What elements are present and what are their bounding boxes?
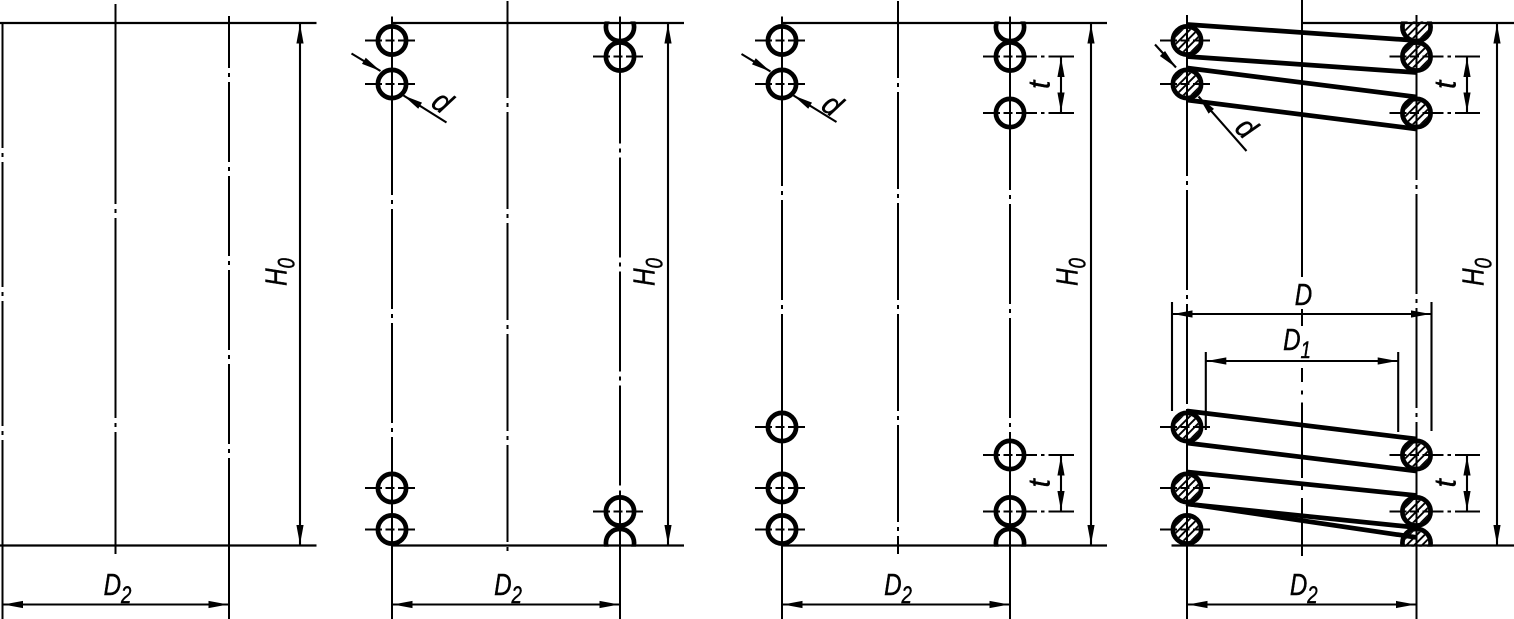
panel2 tick bottom-left coil1 — [365, 487, 415, 489]
panel2 tick top-left coil1 — [365, 40, 415, 42]
dimension D arrow left — [1173, 310, 1193, 317]
dimension H0 panel2 line — [667, 23, 669, 546]
dimension H0 panel4 arrow down — [1493, 525, 1500, 545]
dimension D1 arrow right — [1378, 357, 1398, 364]
wire diameter d leader panel2 lower segment — [404, 96, 447, 123]
panel4 tick bottom-right coil2 extended — [1390, 511, 1481, 513]
dimension D2 panel1 arrow right — [209, 601, 229, 608]
dimension D2 panel3 arrow left — [783, 601, 803, 608]
panel4 spring axis centerline dot a — [1301, 391, 1303, 395]
panel4 spring axis centerline segment a — [1301, 0, 1303, 277]
hatched wire section, panel4 top-right end coil (clipped) — [1396, 6, 1438, 48]
pitch t dimension panel3 bottom line — [1060, 455, 1062, 512]
panel4 tick top-right coil2 extended — [1390, 112, 1481, 114]
panel2 left coil centerline top solid — [391, 17, 393, 104]
wire diameter d leader panel3 upper arrow — [752, 58, 772, 74]
spring wire section, panel2 bottom-left coil 1 — [378, 474, 406, 502]
dimension D2 panel4 line — [1187, 603, 1417, 605]
dimension H0 panel4 line — [1496, 23, 1498, 546]
ground-flat clip below bottom face — [0, 547, 1514, 619]
dimension H0 panel4 arrow up — [1493, 24, 1500, 44]
panel3 tick bottom-right coil1 extended — [983, 454, 1074, 456]
dimension D2 panel4 arrow left — [1188, 601, 1208, 608]
panel4 left coil centerline middle — [1186, 101, 1188, 410]
panel4 tick bottom-left coil3 — [1160, 529, 1210, 531]
pitch t panel4 top arrow up — [1463, 58, 1470, 78]
panel4 tick top-left coil1 — [1160, 40, 1210, 42]
wire diameter d leader panel3 upper segment — [742, 54, 771, 72]
panel4 spring axis centerline segment d — [1301, 403, 1303, 479]
spring wire section, panel3 top-left coil 1 — [768, 26, 796, 54]
dimension D arrow right — [1411, 310, 1431, 317]
wire diameter d leader panel2 upper segment — [352, 54, 381, 72]
dimension D2 panel3 line — [782, 603, 1010, 605]
wire coil bottom turn 2 upper edge — [1187, 472, 1417, 496]
panel4 left coil centerline top solid — [1186, 15, 1188, 101]
spring wire section, panel3 bottom-right end coil (clipped) — [996, 529, 1024, 557]
panel1 bottom end face line — [0, 544, 317, 546]
spring wire section, panel2 top-left coil 2 — [378, 70, 406, 98]
dimension H0 panel2 arrow down — [664, 525, 671, 545]
hatched wire section, panel4 bottom-right end coil (clipped, behind wires) — [1396, 522, 1438, 564]
panel1 left coil centerline dashed part — [2, 23, 4, 490]
wire diameter d leader panel3 lower arrow — [792, 92, 812, 108]
mean diameter D extension line left — [1171, 302, 1173, 411]
mean diameter D extension line right — [1430, 302, 1432, 431]
panel2 top end face line — [392, 22, 685, 24]
panel1 right coil centerline solid part — [228, 470, 230, 619]
wire coil bottom turn 2 lower edge — [1187, 504, 1417, 528]
inner diameter D1 extension line right — [1397, 352, 1399, 432]
dimension D2 panel1 arrow left — [4, 601, 24, 608]
panel3 tick top-left coil1 — [755, 40, 805, 42]
spring wire section, panel3 bottom-left coil 3 — [768, 515, 796, 543]
panel3 spring axis centerline — [897, 1, 899, 554]
pitch t panel4 top arrow down — [1463, 93, 1470, 113]
wire coil top turn 1 (left section to right section) — [1187, 25, 1417, 41]
panel4 bottom end face line — [1172, 544, 1514, 546]
dimension H0 panel3 arrow down — [1087, 525, 1094, 545]
panel3 right coil centerline top solid — [1009, 17, 1011, 131]
spring wire section, panel2 bottom-right end coil (clipped) — [606, 529, 634, 557]
dimension H0 panel1 arrow down — [296, 525, 303, 545]
panel3 bottom end face line — [782, 544, 1108, 546]
spring wire section, panel3 bottom-left coil 1 — [768, 413, 796, 441]
panel3 tick bottom-left coil3 — [755, 529, 805, 531]
panel4 spring axis centerline segment c — [1301, 368, 1303, 382]
panel4 tick top-left coil2 — [1160, 83, 1210, 85]
panel3 tick bottom-left coil2 — [755, 487, 805, 489]
hatched wire section, panel4 bottom-left coil 1 — [1166, 406, 1208, 448]
dimension H0 panel2 arrow up — [664, 24, 671, 44]
dimension D line — [1172, 313, 1432, 315]
pitch t dimension panel3 top line — [1060, 57, 1062, 114]
panel3 right coil centerline bottom solid — [1009, 438, 1011, 619]
panel2 right coil centerline bottom solid — [619, 495, 621, 619]
pitch t panel3 bottom arrow down — [1057, 491, 1064, 511]
wire coil top turn 2 — [1187, 68, 1417, 97]
panel2 bottom end face line — [392, 544, 685, 546]
wire diameter d leader panel2 upper arrow — [362, 58, 382, 74]
hatched wire section, panel4 bottom-right coil 2 — [1396, 491, 1438, 533]
wire diameter d leader panel4 lower arrow — [1196, 94, 1214, 113]
spring wire section, panel2 top-right coil — [606, 42, 634, 70]
panel2 right coil centerline middle — [619, 74, 621, 495]
dimension D2 panel2 line — [392, 603, 620, 605]
dimension H0 panel1 line — [299, 23, 301, 546]
pitch t dimension panel4 top line — [1466, 57, 1468, 114]
spring wire section, panel2 top-right end coil (clipped) — [606, 13, 634, 41]
spring wire section, panel2 bottom-left coil 2 — [378, 515, 406, 543]
hatched wire section, panel4 bottom-right coil 1 — [1396, 434, 1438, 476]
dimension D2 panel1 line — [3, 603, 230, 605]
panel2 tick top-right coil — [593, 56, 643, 58]
panel3 tick top-right coil1 extended — [983, 56, 1074, 58]
hatched wire section, panel4 top-right coil 2 — [1396, 92, 1438, 134]
panel3 left coil centerline bottom solid — [781, 410, 783, 619]
panel2 left coil centerline bottom solid — [391, 471, 393, 619]
panel1 right coil centerline dashed part — [228, 16, 230, 470]
panel4 left coil centerline bottom solid — [1186, 410, 1188, 619]
spring wire section, panel3 top-right end coil (clipped) — [996, 13, 1024, 41]
panel4 right coil centerline top solid — [1416, 15, 1418, 130]
panel2 tick bottom-right coil — [593, 511, 643, 513]
panel4 tick top-right coil1 extended — [1390, 56, 1481, 58]
pitch t panel4 bottom arrow up — [1463, 456, 1470, 476]
spring wire section, panel3 bottom-right coil 1 — [996, 441, 1024, 469]
inner diameter D1 extension line left — [1205, 352, 1207, 430]
panel4 right coil centerline bottom solid — [1416, 438, 1418, 619]
panel1 spring axis centerline — [115, 4, 117, 554]
dimension D2 panel3 arrow right — [990, 601, 1010, 608]
wire diameter d leader panel2 lower arrow — [402, 92, 422, 108]
wire coil bottom end turn — [1186, 504, 1417, 538]
hatched wire section, panel4 bottom-left coil 3 — [1166, 509, 1208, 551]
dimension D2 panel4 arrow right — [1396, 601, 1416, 608]
ground-flat clip above top face — [0, 0, 1514, 21]
panel2 spring axis centerline — [507, 1, 509, 554]
spring wire section, panel3 top-left coil 2 — [768, 70, 796, 98]
hatched wire section, panel4 top-right coil 1 — [1396, 36, 1438, 78]
panel3 left coil centerline middle — [781, 101, 783, 410]
panel1 top end face line — [0, 22, 317, 24]
dimension D2 panel2 arrow left — [393, 601, 413, 608]
dimension D1 arrow left — [1207, 357, 1227, 364]
panel2 left coil centerline middle — [391, 103, 393, 471]
panel3 tick top-right coil2 extended — [983, 112, 1074, 114]
spring wire section, panel3 top-right coil 2 — [996, 99, 1024, 127]
panel1 left coil centerline solid part — [2, 490, 4, 619]
spring wire section, panel3 top-right coil 1 — [996, 42, 1024, 70]
pitch t panel3 top arrow down — [1057, 93, 1064, 113]
wire diameter d leader panel3 lower segment — [794, 96, 837, 123]
wire diameter d leader panel4 upper arrow — [1160, 51, 1179, 70]
dimension H0 panel3 arrow up — [1087, 24, 1094, 44]
panel2 right coil centerline top solid — [619, 17, 621, 74]
panel4 spring axis centerline segment e — [1301, 498, 1303, 556]
spring wire section, panel3 bottom-left coil 2 — [768, 474, 796, 502]
pitch t panel4 bottom arrow down — [1463, 491, 1470, 511]
panel4 spring axis centerline dot b — [1301, 486, 1303, 490]
spring wire section, panel2 top-left coil 1 — [378, 26, 406, 54]
dimension H0 panel1 arrow up — [296, 24, 303, 44]
spring wire section, panel3 bottom-right coil 2 — [996, 497, 1024, 525]
svg-text:D: D — [1295, 277, 1312, 312]
panel4 tick bottom-left coil2 — [1160, 487, 1210, 489]
spring wire section, panel2 bottom-right coil — [606, 497, 634, 525]
hatched wire section, panel4 bottom-left coil 2 — [1166, 467, 1208, 509]
panel3 tick bottom-left coil1 — [755, 426, 805, 428]
panel2 tick top-left coil2 — [365, 83, 415, 85]
panel2 tick bottom-left coil2 — [365, 529, 415, 531]
panel3 top end face line — [782, 22, 1108, 24]
hatched wire section, panel4 top-left coil 1 — [1166, 20, 1208, 62]
panel3 tick bottom-right coil2 extended — [983, 511, 1074, 513]
dimension D2 panel2 arrow right — [600, 601, 620, 608]
panel4 tick bottom-left coil1 — [1160, 426, 1210, 428]
pitch t dimension panel4 bottom line — [1466, 455, 1468, 512]
pitch t panel3 top arrow up — [1057, 58, 1064, 78]
panel4 right coil centerline middle — [1416, 130, 1418, 438]
panel3 left coil centerline top solid — [781, 17, 783, 102]
panel3 tick top-left coil2 — [755, 83, 805, 85]
dimension H0 panel3 line — [1090, 23, 1092, 546]
panel4 spring axis centerline segment b — [1301, 309, 1303, 326]
wire diameter d leader panel4 upper segment — [1155, 45, 1176, 68]
panel4 top end face line — [1302, 22, 1514, 24]
pitch t panel3 bottom arrow up — [1057, 456, 1064, 476]
wire diameter d leader panel4 lower segment — [1199, 97, 1247, 152]
wire coil bottom turn 1 — [1187, 411, 1417, 439]
panel4 tick bottom-right coil1 extended — [1390, 454, 1481, 456]
hatched wire section, panel4 top-left coil 2 — [1166, 63, 1208, 105]
dimension D1 line — [1206, 360, 1398, 362]
panel3 right coil centerline middle — [1009, 130, 1011, 438]
